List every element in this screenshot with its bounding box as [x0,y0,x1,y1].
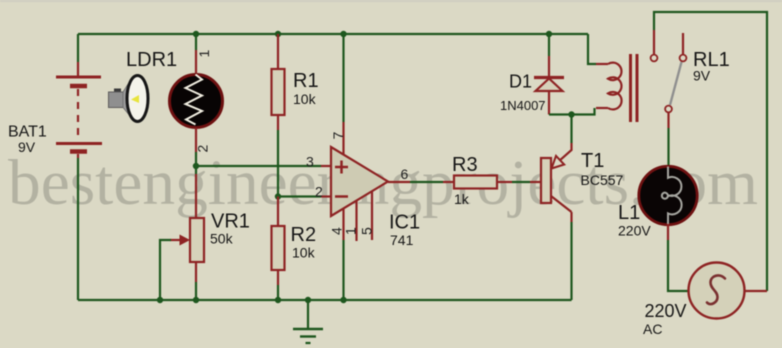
wire: R2 top lead [277,197,279,227]
junction dot: R2 / bottom rail [275,297,281,303]
junction dot: node A (LDR/VR1/pin3) [193,163,199,169]
svg-text:10k: 10k [292,245,316,261]
svg-text:3: 3 [306,154,314,170]
svg-text:LDR1: LDR1 [126,49,177,71]
potentiometer VR1 [170,218,204,262]
wire: op-amp pin 4 to bottom rail [342,209,344,240]
wire: lamp bottom to AC source [667,224,669,240]
wire: T1 emitter up to relay/diode node [570,115,572,144]
junction dot: VR1 bottom / rail [193,297,199,303]
svg-text:R2: R2 [291,224,317,246]
svg-text:9V: 9V [18,139,36,155]
wire: R3 left lead [443,181,454,183]
junction dot: node B (R1/R2/pin2) [275,193,281,199]
relay RL1 switch [651,30,687,112]
wire: VR1 wiper to bottom rail [160,240,171,300]
wire: switch common down to lamp [667,113,669,129]
battery BAT1 [56,62,102,158]
AC source V1 [689,263,745,319]
svg-text:741: 741 [390,232,414,248]
wire: switch pole up and across top right [654,12,767,291]
svg-text:7: 7 [330,132,346,140]
wire: VR1 top lead [195,166,197,174]
svg-text:1: 1 [196,50,212,58]
wire: node B to op-amp pin 2 [278,195,321,197]
wire: top rail to relay coil [588,34,596,64]
svg-text:IC1: IC1 [389,212,420,234]
svg-text:50k: 50k [210,231,234,247]
svg-text:1: 1 [343,227,359,235]
svg-text:R1: R1 [293,70,319,92]
relay RL1 coil [596,63,622,110]
diode D1 [534,78,564,92]
svg-text:1N4007: 1N4007 [500,98,546,113]
svg-text:R3: R3 [452,154,478,176]
wire: op-amp pin 7 [342,34,344,122]
wire: VR1 bottom lead [195,262,197,282]
svg-text:AC: AC [643,321,662,337]
wire: D1 cathode lead [548,34,550,56]
wire: T1 collector down to bottom rail [570,212,572,222]
svg-text:L1: L1 [618,202,640,224]
svg-text:220V: 220V [645,301,687,321]
svg-text:VR1: VR1 [211,211,250,233]
wire: LDR pin 2 [195,128,197,152]
junction dot: top rail / R1 [275,31,281,37]
wire: battery bottom lead [77,158,79,300]
junction dot: wiper/bottom rail [157,297,163,303]
junction dot: top rail / D1 [546,31,552,37]
svg-text:1k: 1k [454,191,470,207]
svg-text:6: 6 [401,166,409,182]
relay core bars [631,54,638,122]
resistor R3 [454,176,497,189]
watermark [8,147,758,219]
resistor R2 [272,226,285,270]
op-amp U1 (IC1 741) [331,147,388,216]
svg-text:T1: T1 [581,150,604,172]
wire: R1 bottom lead [277,115,279,130]
torch icon (light source for LDR) [109,76,149,122]
wire: D1 anode lead [548,91,550,115]
wire: AC source right to top-right rail [745,290,768,292]
junction dot: top rail / LDR [193,31,199,37]
svg-text:BC557: BC557 [581,172,624,188]
wire: R2 bottom lead [277,270,279,285]
wire: LDR pin 1 [195,34,197,50]
wire: op-amp output pin 6 [388,181,410,183]
wire: D1 to coil bottom [549,108,595,115]
wire: op-amp pin 5 stub [371,191,373,240]
wire: bottom rail [78,299,572,301]
junction dot: ground / bottom rail [305,297,311,303]
transistor Q1 (T1 BC557) [541,143,572,212]
svg-text:10k: 10k [293,91,317,107]
svg-text:220V: 220V [618,223,651,239]
svg-text:BAT1: BAT1 [8,124,47,141]
wire: R3 right lead to T1 base [497,181,512,183]
LDR1 body [170,75,223,128]
junction dot: emitter node [568,111,574,117]
wire: top rail [78,33,588,35]
junction dot: top rail / pin 7 [340,31,346,37]
wire: node A to op-amp pin 3 [196,165,321,167]
ground [293,300,323,343]
svg-text:2: 2 [195,145,211,153]
junction dot: pin4 / bottom rail [340,297,346,303]
wire: R1 top lead [277,34,279,69]
svg-text:D1: D1 [509,72,532,92]
resistor R1 [272,69,285,115]
svg-text:5: 5 [359,227,375,235]
svg-text:9V: 9V [693,68,711,84]
lamp L1 [639,166,697,224]
svg-text:2: 2 [315,184,323,200]
wire: op-amp pin 1 stub [355,201,357,241]
wire: battery top lead [77,34,79,62]
